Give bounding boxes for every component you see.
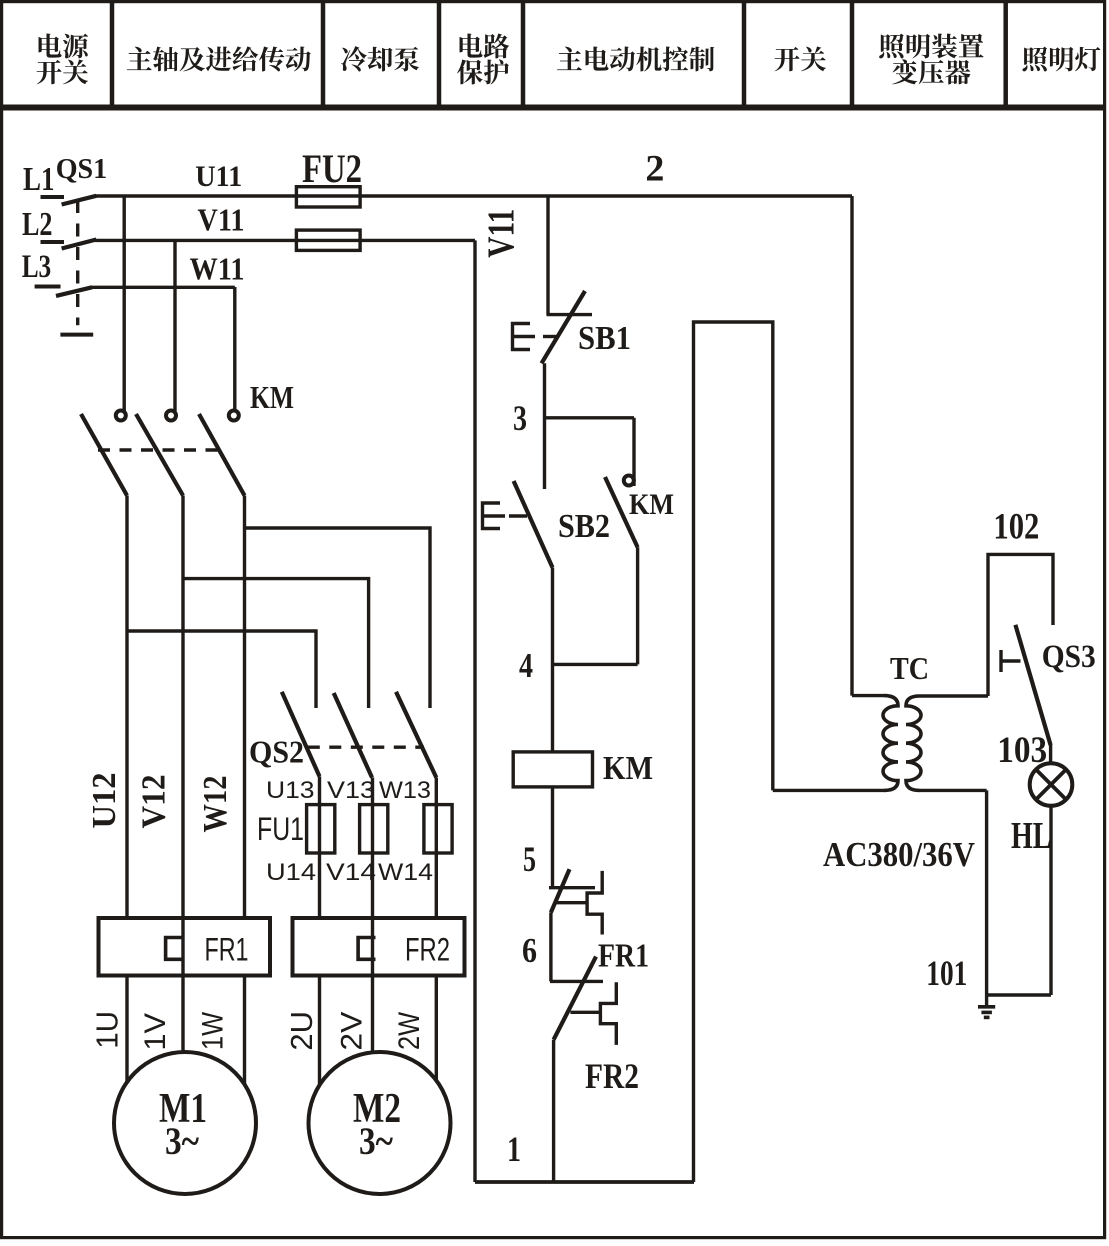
SB2 blade xyxy=(514,481,553,568)
svg-text:V11: V11 xyxy=(481,209,523,258)
node 101 bottom bar xyxy=(987,993,1051,996)
wire branch phase3 to QS2 xyxy=(245,528,431,708)
wire SB2 to KM coil / node 4 xyxy=(551,568,554,752)
header column separators xyxy=(112,3,1006,105)
svg-text:U14: U14 xyxy=(266,859,316,886)
svg-text:3: 3 xyxy=(513,398,527,438)
svg-text:L1: L1 xyxy=(23,161,55,198)
thermal relay FR1 heater box xyxy=(99,918,271,976)
svg-text:2U: 2U xyxy=(284,1011,319,1051)
svg-text:L2: L2 xyxy=(22,206,53,243)
motor M2 circle xyxy=(309,1052,451,1194)
QS1 pole3 blade xyxy=(56,287,92,296)
wire KM coil to FR1 contact xyxy=(551,787,554,888)
node 4 branch bar xyxy=(553,663,638,666)
wire W11 drop to KM xyxy=(233,287,236,411)
svg-text:V14: V14 xyxy=(326,859,376,886)
svg-text:101: 101 xyxy=(926,953,967,993)
wire TC primary bottom xyxy=(773,789,884,792)
SB2 actuator E middle prong xyxy=(483,514,506,517)
KM main contact 2 blade xyxy=(136,414,183,496)
node 3 branch bar xyxy=(545,416,635,419)
svg-text:1U: 1U xyxy=(90,1011,125,1049)
KM main contact 3 blade xyxy=(199,414,245,496)
SB1 fixed contact bar xyxy=(547,313,593,316)
fuse FU2 element on V11 xyxy=(296,230,360,250)
header cell 电源开关 line2 xyxy=(37,60,88,85)
svg-text:1: 1 xyxy=(507,1129,521,1169)
wire node2 drop to TC primary xyxy=(850,196,853,696)
wire node2 drop to SB1 xyxy=(546,196,549,315)
svg-text:FU2: FU2 xyxy=(302,146,362,191)
header cell 开关 xyxy=(775,47,826,72)
KM main contact 2 terminal circle xyxy=(166,411,176,421)
svg-text:V12: V12 xyxy=(135,775,172,829)
header cell 主轴及进给传动 xyxy=(127,46,311,71)
svg-text:3~: 3~ xyxy=(359,1120,394,1163)
svg-text:102: 102 xyxy=(993,507,1039,548)
wire phase U12 to FR1 box xyxy=(125,496,128,919)
QS2 pole2 blade xyxy=(334,693,372,778)
fuse FU1 element 2 xyxy=(360,805,388,853)
svg-text:HL: HL xyxy=(1011,815,1052,857)
transformer TC primary winding xyxy=(883,696,898,791)
KM main contact 1 terminal circle xyxy=(116,411,126,421)
svg-text:2V: 2V xyxy=(336,1012,369,1051)
KM aux contact terminal circle xyxy=(624,476,634,486)
lamp HL cross stroke 2 xyxy=(1036,770,1066,800)
FR2 heater element bracket xyxy=(358,938,375,960)
wire W13-W14 through fuse3 to FR2 box xyxy=(435,778,438,919)
svg-text:V13: V13 xyxy=(327,777,375,804)
wire U13-U14 through fuse1 to FR2 box xyxy=(318,776,321,918)
wire lamp to node 101 xyxy=(1049,806,1052,996)
wire 2U lead to motor M2 xyxy=(318,975,321,1085)
QS2 pole1 blade xyxy=(282,692,320,777)
svg-text:FR1: FR1 xyxy=(205,932,249,968)
wire branch phase2 to QS2 xyxy=(183,579,369,708)
wire phase V12 to motor M1 xyxy=(181,496,184,1054)
FR2 contact link bar xyxy=(570,1011,599,1014)
svg-text:FR2: FR2 xyxy=(585,1056,639,1096)
svg-text:TC: TC xyxy=(890,650,929,686)
wire TC secondary top xyxy=(920,694,989,697)
wire V11 rail xyxy=(95,239,475,242)
SB2 actuator E top-bottom xyxy=(483,503,501,529)
wire V11 drop to KM xyxy=(173,240,176,411)
svg-text:6: 6 xyxy=(522,931,537,970)
svg-text:SB2: SB2 xyxy=(558,508,610,545)
svg-text:3~: 3~ xyxy=(165,1120,200,1163)
wire FR1 to FR2 / node 6 xyxy=(549,912,552,981)
fuse FU1 element 1 xyxy=(307,805,335,853)
wire QS3 to lamp xyxy=(1049,744,1052,764)
FR2 contact blade xyxy=(554,957,596,1040)
QS1 pole1 fixed terminal stub xyxy=(41,195,65,199)
wire secondary bottom drop to node 101 xyxy=(985,790,988,995)
SB1 blade xyxy=(542,291,586,363)
wire V13-V14 through fuse2 to motor M2 xyxy=(371,778,374,1054)
fuse FU1 element 3 xyxy=(424,805,452,853)
QS1 linkage bottom stub xyxy=(60,333,93,337)
svg-text:5: 5 xyxy=(523,839,536,879)
SB1 actuator E top-bottom xyxy=(513,324,531,350)
wire V11 control drop xyxy=(473,240,476,1182)
wire 1U lead to motor M1 xyxy=(125,975,128,1082)
svg-text:KM: KM xyxy=(250,379,294,415)
KM main contact 1 blade xyxy=(81,414,127,496)
QS1 pole2 fixed terminal stub xyxy=(41,240,65,244)
svg-text:FU1: FU1 xyxy=(257,811,304,847)
header cell 电路保护 line1 xyxy=(460,33,510,58)
svg-text:KM: KM xyxy=(603,750,653,787)
FR1 contact link bar xyxy=(555,901,587,904)
svg-text:1W: 1W xyxy=(197,1011,230,1050)
header cell 冷却泵 xyxy=(341,46,419,71)
wire SB1 to SB2 / node 3 xyxy=(543,363,546,489)
lamp HL cross stroke 1 xyxy=(1036,770,1066,800)
contactor coil KM xyxy=(513,752,592,787)
SB1 actuator link dash xyxy=(543,335,559,338)
header cell 电源开关 line1 xyxy=(39,33,88,58)
svg-text:2: 2 xyxy=(645,149,664,190)
FR1 heater element bracket xyxy=(166,938,183,960)
wire KM aux to node 4 xyxy=(636,547,639,664)
svg-text:W14: W14 xyxy=(378,859,433,886)
svg-text:4: 4 xyxy=(519,646,533,685)
svg-text:2W: 2W xyxy=(393,1011,426,1050)
wire branch phase1 to QS2 xyxy=(127,631,316,708)
thermal relay FR2 heater box xyxy=(293,918,465,976)
QS3 actuator tick xyxy=(999,650,1002,672)
svg-text:AC380/36V: AC380/36V xyxy=(823,835,975,874)
svg-text:U12: U12 xyxy=(86,773,123,829)
KM main contacts linkage dashed bar xyxy=(98,448,222,451)
QS2 linkage dashed bar xyxy=(308,746,424,749)
header cell 照明装置变压器 line2 xyxy=(892,59,970,84)
svg-text:FR1: FR1 xyxy=(598,938,649,975)
header cell 照明灯 xyxy=(1022,47,1100,72)
QS2 pole3 blade xyxy=(396,692,436,778)
SB2 actuator link dash xyxy=(509,514,527,517)
node 1 bottom bar xyxy=(475,1180,694,1184)
header cell 主电动机控制 xyxy=(557,46,714,71)
KM main contact 3 terminal circle xyxy=(229,411,239,421)
transformer TC secondary winding xyxy=(906,696,921,790)
svg-text:V11: V11 xyxy=(198,201,245,237)
svg-text:QS1: QS1 xyxy=(56,153,107,185)
KM aux contact blade xyxy=(605,477,638,547)
lamp HL circle xyxy=(1030,763,1073,806)
wire FR2 to node 1 xyxy=(552,1040,555,1182)
header cell 照明装置变压器 line1 xyxy=(879,34,983,59)
wire 1W lead to motor M1 xyxy=(243,975,246,1084)
fuse FU2 element on U11 xyxy=(296,187,360,207)
QS1 pole3 fixed terminal stub xyxy=(35,285,61,289)
FR2 contact fixed bar xyxy=(550,980,603,983)
svg-text:W13: W13 xyxy=(379,777,431,804)
wire to TC primary top xyxy=(852,694,884,697)
svg-text:FR2: FR2 xyxy=(405,932,450,968)
svg-text:KM: KM xyxy=(629,488,674,521)
ground symbol xyxy=(978,995,995,1017)
FR1 contact blade xyxy=(551,869,570,912)
motor M1 circle xyxy=(114,1052,256,1194)
wire TC secondary bottom xyxy=(920,789,987,792)
wire 2W lead to motor M2 xyxy=(435,975,438,1081)
svg-text:SB1: SB1 xyxy=(578,320,631,357)
SB1 actuator E middle prong xyxy=(513,335,536,338)
svg-text:U13: U13 xyxy=(266,777,315,804)
FR1 contact fixed bar xyxy=(549,886,595,889)
svg-text:U11: U11 xyxy=(195,160,242,193)
header cell 电路保护 line2 xyxy=(457,59,509,84)
QS3 actuator dash xyxy=(1001,659,1021,662)
QS1 pole2 blade xyxy=(62,240,97,249)
wire node3 to KM aux contact xyxy=(632,418,635,486)
FR2 thermal element zigzag xyxy=(600,982,616,1045)
svg-text:QS2: QS2 xyxy=(249,734,304,770)
QS1 pole1 blade xyxy=(62,196,97,205)
FR1 thermal element zigzag xyxy=(587,871,602,935)
wire U11 / node 2 top rail xyxy=(95,194,852,197)
svg-text:1V: 1V xyxy=(139,1013,172,1051)
wire node 102 riser to QS3 xyxy=(988,554,1053,696)
QS1 linkage dashed bar xyxy=(76,200,79,325)
wire node1 riser over to TC primary bottom xyxy=(694,322,773,1182)
wire W11 rail xyxy=(90,286,235,289)
svg-text:QS3: QS3 xyxy=(1042,639,1096,675)
header bottom line xyxy=(0,105,1106,111)
svg-text:W12: W12 xyxy=(197,776,234,833)
svg-text:W11: W11 xyxy=(190,251,245,287)
svg-text:L3: L3 xyxy=(22,249,52,285)
wire phase W12 to FR1 box xyxy=(243,496,246,919)
switch QS3 blade xyxy=(1015,625,1050,745)
wire U11 drop to KM xyxy=(122,196,125,411)
